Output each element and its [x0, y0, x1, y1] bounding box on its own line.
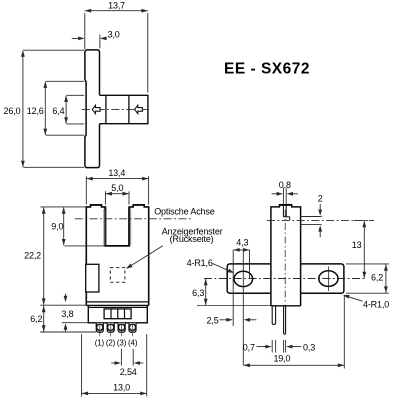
front view: pins with round terminals [96, 323, 103, 332]
front view: optical axis dash-dot line [75, 218, 193, 220]
svg-text:(4): (4) [128, 339, 138, 348]
svg-text:4-R1,6: 4-R1,6 [187, 258, 213, 268]
dimension 3.0 bar thickness [99, 35, 101, 49]
side view: right mounting hole [319, 271, 338, 287]
dimension 19.0 plate width [343, 296, 345, 369]
svg-text:13,0: 13,0 [113, 382, 130, 392]
front view: slot inner walls thick [104, 208, 106, 247]
front view: side window rectangle [86, 264, 99, 292]
side view: mounting plate right part [301, 264, 344, 293]
top view: optical axis center line [82, 108, 152, 110]
svg-text:26,0: 26,0 [4, 106, 21, 116]
dimension 13.0 flange width [81, 334, 83, 397]
side view: tower body outline [271, 205, 301, 306]
svg-text:6,3: 6,3 [192, 288, 204, 298]
top view: mounting bar of sensor housing [85, 50, 100, 168]
svg-text:0,7: 0,7 [243, 342, 255, 352]
front view: indicator window dashed rect [110, 268, 125, 283]
side view: top cap thick line [279, 204, 291, 206]
side view: inner aperture step [283, 216, 289, 218]
top view: optical axis arrow symbol left [92, 105, 100, 113]
svg-text:13,7: 13,7 [108, 1, 125, 11]
svg-text:6,2: 6,2 [371, 272, 383, 282]
front view: slot bottom edge [105, 245, 129, 247]
svg-text:12,6: 12,6 [27, 106, 44, 116]
front view: base flange [88, 306, 147, 323]
svg-text:4,3: 4,3 [236, 238, 248, 248]
dimension 26.0 bar length [23, 49, 84, 51]
dimension 2.54 pin pitch [120, 349, 122, 366]
svg-text:13,4: 13,4 [108, 168, 125, 178]
top view: optical axis arrow symbol right [135, 105, 143, 113]
svg-text:(Rückseite): (Rückseite) [170, 234, 214, 244]
side view: pins [272, 307, 275, 325]
svg-text:(3): (3) [117, 339, 127, 348]
dimension 2 axis offset [301, 216, 322, 218]
front view: case bottom lip lines [86, 301, 148, 303]
svg-text:Optische Achse: Optische Achse [154, 207, 215, 217]
svg-text:13: 13 [352, 240, 362, 250]
dimension 4.3 [232, 250, 234, 326]
svg-text:3,8: 3,8 [61, 309, 73, 319]
side view: optical axis dash-dot [267, 219, 374, 221]
top view: sensor body side profile [100, 95, 148, 123]
svg-text:3,0: 3,0 [108, 30, 120, 40]
side view: right hole vertical center line [327, 267, 329, 292]
front view: top window frames thick caps [91, 204, 102, 206]
dimension 13.7 top width [84, 13, 86, 49]
dimension 22.2 housing height [40, 206, 86, 208]
svg-text:6,4: 6,4 [52, 106, 64, 116]
top view: compartment divider lines [105, 95, 107, 123]
dimension 5.0 slot width [104, 191, 106, 204]
side view: left mounting hole [234, 271, 253, 286]
svg-text:0.8: 0.8 [279, 180, 291, 190]
side view: mounting plate left part [227, 264, 271, 293]
svg-text:5,0: 5,0 [111, 183, 123, 193]
dimension 0.7 pin width [271, 340, 273, 353]
front view: slotted housing outline [86, 205, 148, 306]
dimension 6.2 plate height side [346, 263, 389, 265]
svg-text:22,2: 22,2 [24, 250, 41, 260]
svg-text:6,2: 6,2 [30, 314, 42, 324]
svg-text:(2): (2) [106, 339, 116, 348]
dimension 12.6 middle section [46, 80, 84, 82]
dimension 2.5 [242, 251, 244, 365]
side view: light slit lines [282, 205, 284, 217]
svg-text:2: 2 [318, 194, 323, 204]
svg-text:2,54: 2,54 [120, 367, 137, 377]
dimension 13.4 front width [85, 176, 87, 204]
leader arrow to indicator window [128, 246, 163, 267]
dimension 6.2 pin shoulder [40, 331, 96, 333]
svg-text:9,0: 9,0 [51, 221, 63, 231]
dimension 13 axis to plate center [354, 219, 374, 221]
front view: connector block with 4 cells [104, 309, 131, 319]
side view: plate center dash-dot line [204, 278, 365, 280]
svg-text:(1): (1) [95, 339, 105, 348]
dimension 6.3 [197, 305, 271, 307]
side view: vertical center line of tower [284, 210, 286, 305]
side view: tower bottom edge [271, 305, 301, 307]
dimension 9.0 slot depth [64, 245, 105, 247]
svg-text:2,5: 2,5 [207, 315, 219, 325]
dimension 0.3 pin width right [283, 340, 285, 353]
svg-text:19,0: 19,0 [273, 353, 290, 363]
dimension 6.4 body height [67, 94, 85, 96]
svg-text:0,3: 0,3 [303, 342, 315, 352]
svg-text:4-R1,0: 4-R1,0 [363, 299, 389, 309]
svg-text:EE - SX672: EE - SX672 [224, 60, 310, 77]
dimension 0.8 slit width [282, 188, 284, 204]
dimension 3.8 flange height [62, 322, 88, 324]
